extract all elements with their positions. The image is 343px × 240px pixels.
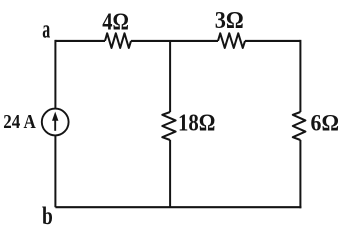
svg-text:24 A: 24 A: [3, 111, 36, 133]
svg-text:3Ω: 3Ω: [215, 8, 244, 34]
resistor R2 3ohm: [218, 33, 245, 48]
resistor R4 6ohm: [293, 112, 306, 140]
svg-text:4Ω: 4Ω: [102, 9, 129, 35]
svg-text:b: b: [42, 203, 53, 230]
wire bottom from right corner through junction to node b: [55, 206, 301, 208]
svg-text:a: a: [42, 15, 50, 44]
resistor R1 4ohm: [105, 33, 131, 48]
wire current source to node b: [54, 135, 56, 207]
svg-text:6Ω: 6Ω: [311, 111, 340, 137]
wire top junction down to R3: [169, 41, 171, 112]
current source I1 24A: [42, 109, 69, 136]
wire top-right corner down to R4: [299, 40, 301, 112]
wire node a to R1 left lead: [55, 40, 105, 42]
svg-text:18Ω: 18Ω: [178, 109, 215, 136]
wire node a down to current source: [54, 40, 56, 109]
wire R4 to bottom-right corner: [299, 140, 301, 208]
resistor R3 18ohm: [162, 112, 175, 140]
wire R1 to R2 through top junction: [131, 40, 218, 42]
wire R3 to bottom junction: [169, 140, 171, 207]
wire R2 to top-right corner: [245, 40, 300, 42]
